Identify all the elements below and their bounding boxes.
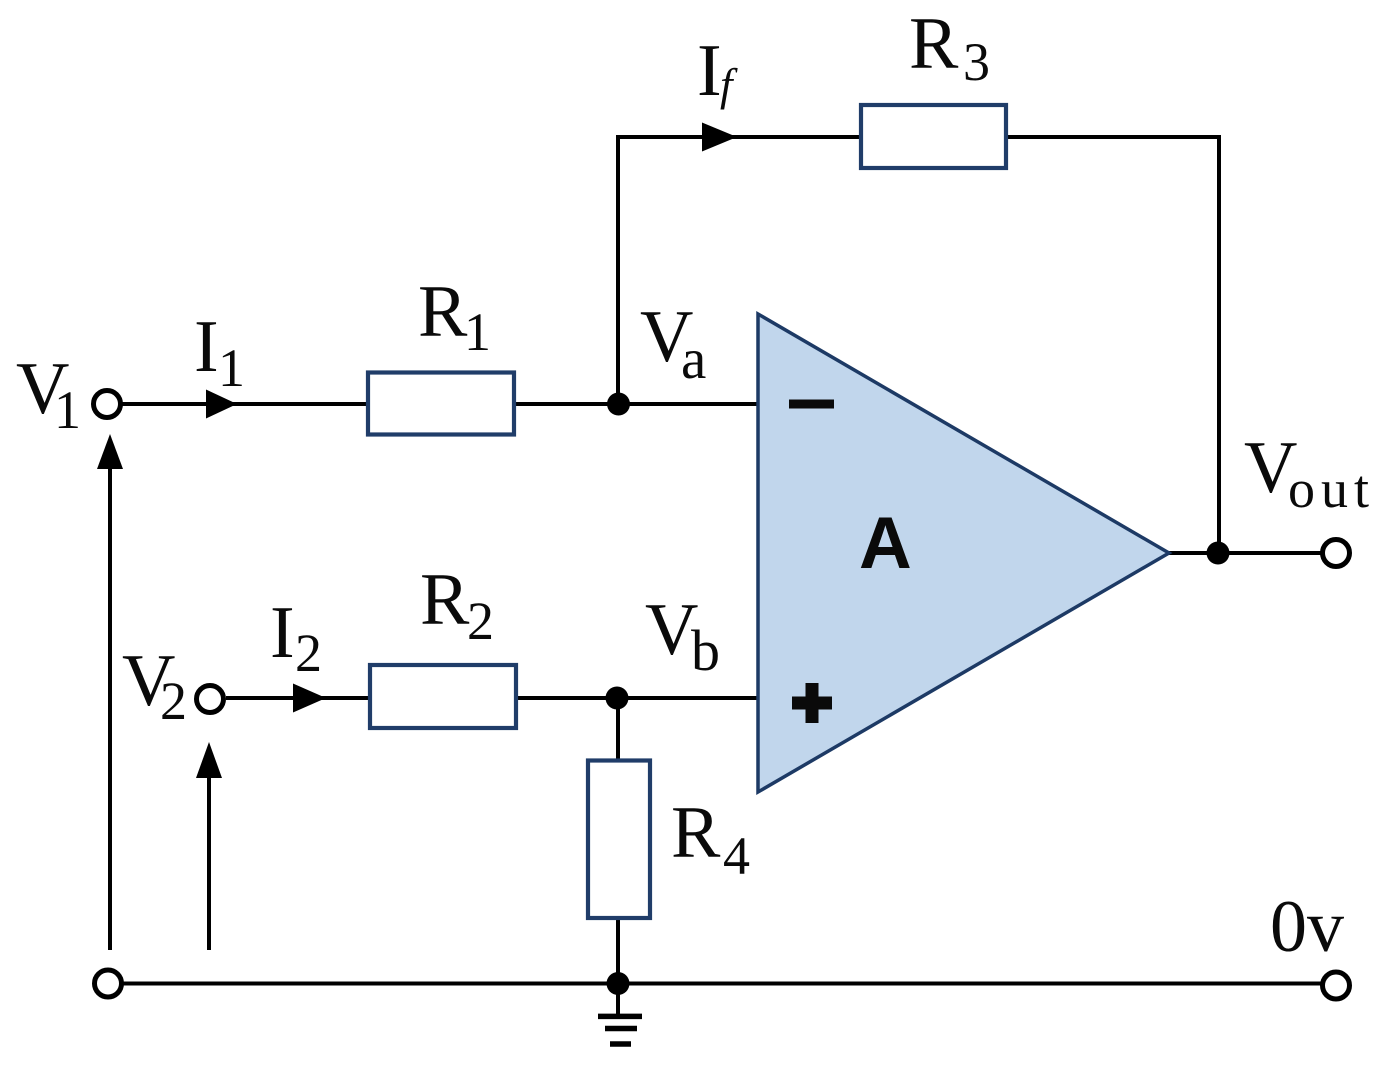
svg-text:I: I bbox=[194, 306, 219, 388]
svg-text:R: R bbox=[909, 3, 959, 85]
svg-text:3: 3 bbox=[963, 32, 990, 92]
svg-text:R: R bbox=[420, 559, 470, 641]
svg-text:2: 2 bbox=[160, 671, 187, 731]
svg-text:A: A bbox=[859, 503, 912, 584]
svg-text:0v: 0v bbox=[1270, 886, 1344, 968]
svg-text:1: 1 bbox=[218, 338, 245, 398]
svg-text:4: 4 bbox=[723, 826, 750, 886]
svg-text:f: f bbox=[720, 60, 738, 110]
svg-text:1: 1 bbox=[464, 302, 491, 362]
svg-text:a: a bbox=[681, 328, 706, 391]
svg-text:I: I bbox=[697, 30, 722, 112]
svg-text:2: 2 bbox=[467, 591, 494, 651]
svg-text:2: 2 bbox=[295, 623, 322, 683]
svg-text:out: out bbox=[1288, 459, 1375, 519]
svg-text:b: b bbox=[691, 618, 720, 683]
svg-text:R: R bbox=[418, 271, 468, 353]
svg-text:I: I bbox=[270, 592, 295, 674]
svg-text:R: R bbox=[671, 792, 721, 874]
svg-text:1: 1 bbox=[54, 380, 81, 440]
